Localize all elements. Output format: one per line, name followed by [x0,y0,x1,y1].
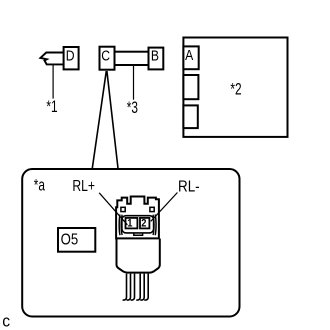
svg-text:RL-: RL- [178,178,200,195]
pointer line left from C to detail view [92,71,106,168]
svg-text:*a: *a [34,177,45,195]
svg-text:*2: *2 [230,80,241,99]
wire 2 line a [136,274,140,301]
seal arc right outer [154,215,157,236]
svg-text:*3: *3 [127,99,138,118]
connector D wire-end flag symbol [40,53,64,65]
seal arc right inner [153,215,154,235]
svg-text:1: 1 [127,218,132,230]
connector body [117,239,160,273]
leader RL- to pin 2 [151,193,178,222]
terminal cavity [122,216,154,233]
wire 2 line c [144,274,148,301]
connector box below A (unlabeled) [183,75,198,99]
cable bar between C and B [115,52,149,65]
leader RL+ to pin 1 [99,193,127,225]
detail view rounded box *a [22,169,239,317]
leader line *3 [133,65,135,100]
connector shell outline [116,197,159,239]
svg-text:2: 2 [141,218,146,230]
pin 2 box [140,218,149,229]
svg-text:D: D [66,48,75,64]
svg-text:O5: O5 [61,231,79,248]
box D [64,47,79,69]
wire 1 line c [131,274,135,301]
latch hole left [121,207,125,211]
svg-text:c: c [2,312,10,330]
wire 2 line b [140,274,144,301]
seal arc left outer [118,215,121,236]
seal arc left inner [121,215,122,235]
box C [100,47,115,70]
pointer line right from C to detail view [107,71,118,168]
lower connector box (unlabeled) [183,105,197,128]
relay block *2 [183,38,287,137]
svg-text:A: A [185,47,193,63]
cavity bottom notch [134,233,143,235]
svg-text:B: B [151,48,159,64]
wire 1 line b [127,274,131,301]
O5 box [58,228,95,252]
box B [149,48,164,70]
svg-text:C: C [101,47,110,63]
svg-text:*1: *1 [46,98,57,117]
leader line *1 [52,64,54,98]
latch hole right [150,207,154,211]
pin 1 box [126,218,138,229]
wire 1 line a [123,274,127,301]
svg-text:RL+: RL+ [72,177,95,195]
connector box A [183,46,198,69]
